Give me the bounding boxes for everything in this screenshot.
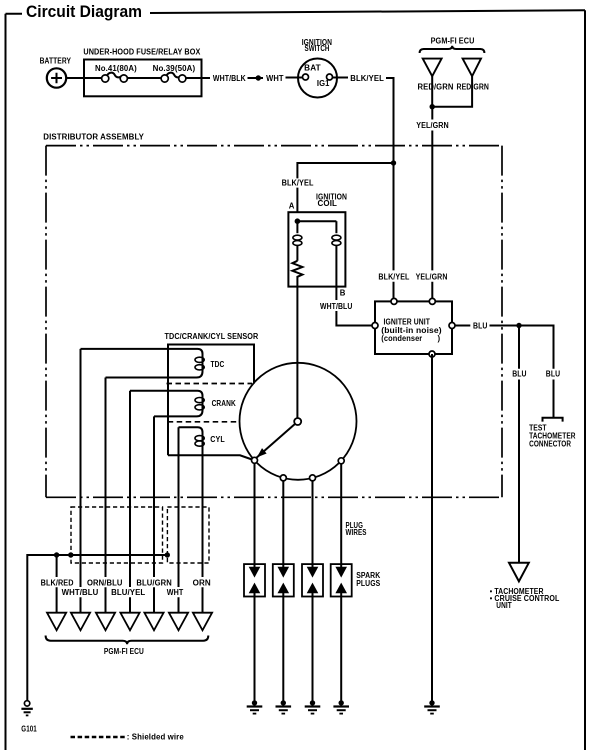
svg-text:WHT: WHT [266, 74, 284, 83]
svg-text:BLU/GRN: BLU/GRN [136, 578, 172, 587]
PGM-FI ECU brace (top) [420, 46, 485, 53]
rotor hub [294, 418, 301, 425]
resistor (coil primary) [292, 261, 302, 287]
CRANK pickup coil [130, 391, 204, 417]
spark plug P2 [273, 564, 294, 596]
distributor cap terminal 4 [338, 458, 344, 464]
wire WHT/BLK to WHT with splice [248, 77, 264, 79]
igniter terminal (bottom) [429, 351, 435, 357]
primary winding L1 [293, 221, 302, 261]
spark wire 3 [312, 478, 314, 564]
bus junction dot (shield A) [68, 552, 73, 557]
spark wire 1 [254, 460, 256, 564]
shield box B (CYL wires) [167, 507, 209, 563]
svg-text:BLK/YEL: BLK/YEL [350, 74, 384, 83]
igniter terminal (right) [449, 323, 455, 329]
wire TDC top to ECU (WHT/BLU) [80, 349, 82, 613]
page frame title tick [6, 13, 23, 15]
wire coil primary to distributor rotor [296, 287, 298, 418]
ground (spark plug 2) [276, 700, 292, 713]
svg-text:BLK/YEL: BLK/YEL [282, 179, 314, 188]
wire into fuse No.41 [84, 77, 102, 79]
ground (igniter) [424, 700, 440, 713]
secondary winding L2 [332, 221, 341, 286]
wire CRANK top to ECU (BLU/YEL) [129, 391, 131, 613]
rotor arm arrowhead [254, 448, 266, 460]
distributor cap terminal 1 [252, 457, 258, 463]
spark plug 1 ground wire [254, 597, 256, 702]
svg-text:SWITCH: SWITCH [305, 44, 330, 53]
wire CYL bottom to ECU (ORN) [202, 455, 204, 612]
svg-text:No.41(80A): No.41(80A) [95, 64, 137, 73]
wire BLU from igniter [455, 325, 470, 327]
tachometer / cruise control unit label [490, 587, 560, 610]
wire branch to ignition coil A [297, 163, 393, 212]
svg-text:BLK/YEL: BLK/YEL [378, 273, 409, 282]
svg-text:CRANK: CRANK [212, 399, 236, 408]
svg-text:WHT/BLU: WHT/BLU [320, 302, 353, 311]
G101 ground [21, 701, 32, 716]
svg-text:BAT: BAT [304, 63, 321, 72]
igniter terminal (left) [372, 323, 378, 329]
wire BLU down to tachometer [518, 326, 520, 563]
spark plug P3 [302, 564, 323, 596]
shielded wire dashed line (TDC) [167, 383, 253, 385]
shielded wire legend dashes [71, 736, 127, 738]
svg-text:): ) [438, 334, 441, 343]
wire RED/GRN left [431, 76, 433, 107]
tachometer output connector triangle [509, 563, 529, 582]
spark wire 2 [282, 478, 284, 564]
svg-text:RED/GRN: RED/GRN [457, 83, 490, 92]
svg-text:IGNITER UNIT: IGNITER UNIT [384, 317, 431, 326]
wire BLU to test connector corner [490, 326, 554, 369]
igniter terminal (top left) [391, 298, 397, 304]
spark wire 4 [340, 461, 342, 564]
wire BLK/RED to ECU [56, 555, 58, 613]
svg-text:WIRES: WIRES [346, 528, 367, 537]
ECU connector triangle 7 [193, 613, 212, 631]
svg-text:YEL/GRN: YEL/GRN [416, 121, 449, 130]
ground bus wire [27, 555, 167, 701]
svg-text:RED/GRN: RED/GRN [418, 83, 454, 92]
bus junction dot (shield B) [165, 552, 170, 557]
spark plugs label [356, 571, 380, 588]
svg-text:CONNECTOR: CONNECTOR [529, 440, 571, 449]
igniter unit U1 [375, 301, 452, 354]
rotor arm [256, 424, 295, 458]
ECU connector triangle 2 [71, 613, 90, 631]
PGM-FI ECU brace (bottom) [46, 636, 209, 645]
shield box A (TDC/CRANK wires) [71, 507, 163, 563]
svg-text:YEL/GRN: YEL/GRN [416, 273, 448, 282]
svg-text:ORN: ORN [193, 578, 211, 587]
wire battery to fuse box [66, 77, 84, 79]
svg-text:BLU: BLU [546, 370, 561, 379]
svg-text:PGM-FI ECU: PGM-FI ECU [431, 37, 475, 46]
ground (spark plug 3) [305, 700, 321, 713]
svg-text:BLU: BLU [512, 370, 527, 379]
ECU connector triangle 3 [96, 613, 115, 631]
svg-text:Circuit Diagram: Circuit Diagram [26, 3, 142, 21]
spark plug P1 [244, 564, 265, 596]
ECU connector triangle 6 [169, 613, 188, 631]
wire BLK/YEL down to igniter [386, 78, 394, 301]
svg-text:PLUGS: PLUGS [356, 579, 380, 588]
wire to test tachometer connector [553, 380, 555, 418]
svg-text:DISTRIBUTOR ASSEMBLY: DISTRIBUTOR ASSEMBLY [43, 132, 144, 141]
svg-text:BLK/RED: BLK/RED [41, 578, 74, 587]
svg-text:A: A [289, 202, 295, 211]
svg-text:UNDER-HOOD FUSE/RELAY BOX: UNDER-HOOD FUSE/RELAY BOX [83, 47, 201, 56]
ECU connector triangle (left) [423, 59, 442, 77]
sensor box [168, 345, 254, 460]
spark plug P4 [331, 564, 352, 596]
battery B1 [47, 68, 66, 87]
svg-text:ORN/BLU: ORN/BLU [87, 578, 123, 587]
distributor cap terminal 2 [280, 475, 286, 481]
junction dot BLK/YEL branch [391, 160, 396, 165]
ground (spark plug 4) [333, 700, 349, 713]
svg-text:(condenser: (condenser [381, 334, 422, 343]
shielded wire dashed line (CRANK) [168, 421, 239, 423]
ignition switch SW1 [286, 59, 349, 98]
ignition coil box [288, 212, 345, 286]
test tachometer connector [543, 418, 563, 422]
CYL pickup coil [179, 427, 205, 455]
fuse F2 No.39 [161, 73, 186, 82]
wire coil B to igniter (WHT/BLU) [336, 287, 372, 326]
spark plug 4 ground wire [340, 597, 342, 702]
svg-text:CYL: CYL [210, 435, 225, 444]
test tachometer connector label [529, 423, 576, 448]
splice dot [256, 75, 261, 80]
junction dot coil A [295, 218, 301, 224]
svg-text:B: B [340, 289, 346, 298]
wire coil A junction to secondary [297, 220, 336, 222]
ignition coil label [316, 192, 347, 208]
spark plug 3 ground wire [312, 597, 314, 702]
svg-text:WHT/BLU: WHT/BLU [62, 588, 99, 597]
wire CYL top to ECU (WHT) [178, 427, 180, 612]
svg-text:G101: G101 [21, 725, 37, 734]
junction dot RED/GRN [430, 104, 435, 109]
svg-text:: Shielded wire: : Shielded wire [127, 733, 185, 742]
ignition switch label [302, 38, 333, 53]
wire RED/GRN right [432, 76, 472, 107]
page frame top rule [150, 10, 585, 13]
svg-text:BLU: BLU [473, 322, 488, 331]
svg-text:BATTERY: BATTERY [40, 56, 72, 65]
distributor rotor circle [240, 363, 357, 480]
under-hood fuse/relay box [84, 60, 202, 97]
plug wires label [346, 521, 367, 537]
svg-text:BLU/YEL: BLU/YEL [111, 588, 145, 597]
svg-text:IG1: IG1 [317, 79, 330, 88]
wire between fuses [127, 77, 161, 79]
svg-text:WHT: WHT [167, 588, 184, 597]
fuse F1 No.41 [102, 73, 128, 82]
svg-text:No.39(50A): No.39(50A) [153, 64, 196, 73]
svg-text:TDC: TDC [211, 360, 225, 369]
ECU connector triangle 4 [120, 613, 139, 631]
wire fuse box to WHT/BLK label [186, 77, 210, 79]
svg-text:WHT/BLK: WHT/BLK [213, 74, 246, 83]
svg-text:PGM-FI ECU: PGM-FI ECU [104, 647, 144, 656]
svg-text:COIL: COIL [318, 199, 338, 208]
page frame left border [5, 14, 7, 750]
igniter ground wire [431, 354, 433, 701]
ECU connector triangle 1 [47, 613, 66, 631]
svg-text:UNIT: UNIT [496, 601, 512, 610]
wire TDC bottom to ECU (ORN/BLU) [105, 378, 107, 613]
wire YEL/GRN down to igniter [431, 107, 433, 301]
ECU connector triangle (right) [463, 59, 481, 77]
wire CRANK bottom to ECU (BLU/GRN) [153, 416, 155, 612]
junction dot BLU [516, 323, 521, 328]
ground (spark plug 1) [247, 700, 263, 713]
ECU connector triangle 5 [144, 613, 163, 631]
TDC pickup coil [81, 349, 205, 378]
distributor assembly dashed boundary box [46, 146, 502, 498]
svg-text:TDC/CRANK/CYL SENSOR: TDC/CRANK/CYL SENSOR [165, 332, 259, 341]
bus junction dot (BLK/RED) [54, 552, 59, 557]
page frame right border [584, 10, 586, 750]
spark plug 2 ground wire [282, 597, 284, 702]
distributor cap terminal 3 [310, 475, 316, 481]
igniter terminal (top right) [429, 298, 435, 304]
